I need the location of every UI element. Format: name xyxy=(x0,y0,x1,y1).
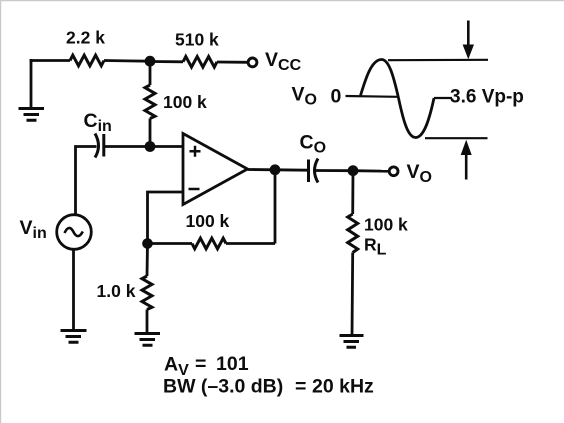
wire RL to ground xyxy=(351,253,355,336)
source Vin xyxy=(57,215,92,250)
capacitor Co xyxy=(309,159,319,183)
svg-text:3.6 Vp-p: 3.6 Vp-p xyxy=(450,87,524,108)
svg-text:510 k: 510 k xyxy=(175,30,219,50)
waveform trough level line xyxy=(425,137,488,139)
svg-text:100 k: 100 k xyxy=(364,215,408,235)
waveform sine xyxy=(361,60,435,138)
wire top rail left xyxy=(30,59,70,62)
arrowhead up xyxy=(461,140,472,155)
resistor R 2.2 k xyxy=(70,55,104,66)
wire op-amp minus input xyxy=(148,192,184,244)
wire Co to node E xyxy=(315,169,354,172)
wire node A down xyxy=(149,61,152,85)
ground (1.0 k) xyxy=(135,334,161,346)
wire Cin left branch xyxy=(76,147,97,215)
resistor R 100 k (top) xyxy=(145,85,155,119)
wire op-amp output to node D xyxy=(248,168,276,171)
node B junction dot xyxy=(145,141,156,152)
resistor RL 100 k xyxy=(348,214,358,253)
svg-text:1.0 k: 1.0 k xyxy=(97,281,136,301)
svg-text:0: 0 xyxy=(331,86,342,108)
waveform zero baseline right xyxy=(434,97,452,99)
ground (Vin) xyxy=(61,331,87,343)
svg-text:BW (–3.0 dB)=20 kHz: BW (–3.0 dB)=20 kHz xyxy=(163,376,374,398)
wire node D down to feedback rail xyxy=(274,170,277,244)
arrow up (bottom) xyxy=(465,154,468,180)
svg-text:100 k: 100 k xyxy=(186,211,230,231)
svg-text:100 k: 100 k xyxy=(163,92,207,112)
waveform peak level line xyxy=(388,59,488,62)
node A junction dot xyxy=(145,56,156,67)
wire 510k to VCC terminal xyxy=(217,61,248,64)
arrowhead down xyxy=(463,45,474,60)
wire left vertical to ground xyxy=(30,59,33,108)
capacitor Cin xyxy=(95,134,104,158)
resistor R feedback 100 k xyxy=(192,238,226,249)
ground (top left) xyxy=(19,109,45,121)
op-amp U1 xyxy=(183,134,248,205)
wire Cin right plate to op-amp plus input xyxy=(104,145,183,148)
resistor R 1.0 k xyxy=(142,276,152,310)
wire feedback rail left segment xyxy=(148,242,193,245)
wire node E down to RL xyxy=(351,171,354,214)
node D junction dot xyxy=(270,164,281,175)
wire node C down xyxy=(146,244,149,277)
wire Vin to ground xyxy=(72,250,75,331)
node E junction dot xyxy=(348,165,359,176)
wire 1.0k to ground xyxy=(146,310,149,334)
wire node E to Vo terminal xyxy=(353,169,389,172)
terminal VO xyxy=(389,167,398,176)
wire node A to 510k xyxy=(150,60,183,63)
svg-text:2.2 k: 2.2 k xyxy=(66,28,105,48)
wire 100k to node B xyxy=(149,119,152,147)
resistor R 510 k xyxy=(183,57,217,68)
waveform zero baseline left xyxy=(346,95,399,98)
ground (RL) xyxy=(340,336,364,348)
wire node D to Co xyxy=(275,168,308,171)
terminal VCC xyxy=(248,58,257,67)
arrow down (top) xyxy=(467,21,470,47)
node C junction dot xyxy=(142,238,153,249)
wire feedback rail right segment xyxy=(226,242,275,245)
wire 2.2k to node A xyxy=(104,59,150,63)
